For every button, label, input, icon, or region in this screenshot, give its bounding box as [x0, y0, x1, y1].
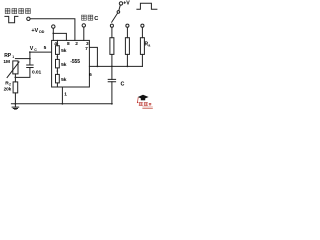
node: R2/rail junction — [15, 103, 17, 105]
svg-text:5k: 5k — [61, 48, 67, 54]
watermark red text — [139, 102, 152, 106]
wire: VC down to capacitor — [29, 52, 31, 65]
node: pot/R2 junction — [15, 77, 17, 79]
wire: capacitor bottom to divider node — [15, 68, 30, 78]
resistor R2 — [13, 82, 18, 93]
svg-text:20k: 20k — [4, 87, 12, 92]
wire: +VDD down to pin 4 — [52, 28, 54, 40]
wire: pin 7 to timing node — [89, 47, 97, 66]
node: VC junction — [29, 51, 31, 53]
node: pin7/pin6 junction — [97, 66, 99, 68]
switch contact 2 — [126, 24, 129, 27]
negative trigger pulse waveform — [5, 16, 18, 22]
wire: pin 1 to ground rail — [61, 87, 63, 104]
switch SA: +V terminal — [119, 2, 122, 5]
svg-text:2: 2 — [75, 41, 78, 47]
svg-text:a: a — [148, 44, 150, 48]
wire: internal chain top — [56, 40, 58, 45]
node: divider tap 2 — [57, 70, 59, 72]
svg-text:-555: -555 — [70, 59, 80, 65]
svg-text:1: 1 — [64, 91, 67, 97]
input terminal (open circle) — [27, 17, 30, 20]
resistor internal 5k (3) — [56, 74, 60, 83]
positive pulse waveform — [137, 3, 157, 9]
wire — [56, 54, 58, 59]
resistor Ra2 — [126, 27, 128, 37]
node: C/rail junction — [111, 103, 113, 105]
node: divider tap 1 — [57, 56, 59, 58]
wire: pot top to VC line — [15, 58, 30, 60]
svg-text:C: C — [121, 82, 125, 88]
wire: trigger input to pin 2 — [30, 19, 75, 41]
node: VDD junction — [52, 33, 54, 35]
svg-text:1M: 1M — [3, 59, 10, 65]
node: pot top tee — [29, 58, 31, 60]
svg-text:4: 4 — [54, 41, 57, 47]
node: rail/C junction — [111, 66, 113, 68]
node: divider top tap — [57, 43, 59, 45]
wire: R2 to ground rail — [14, 93, 16, 104]
potentiometer RP1 — [13, 61, 18, 74]
svg-text:8: 8 — [67, 41, 70, 47]
pot arrow — [7, 62, 19, 78]
wire: VDD branch to pin 8 — [53, 33, 66, 40]
svg-text:+V: +V — [123, 1, 130, 7]
svg-text:3: 3 — [86, 41, 89, 47]
trigger pulse label 触发脉冲 (drawn glyph blocks) — [5, 9, 30, 14]
svg-text:5: 5 — [44, 45, 47, 51]
svg-text:C: C — [34, 48, 37, 52]
resistor internal 5k (1) — [56, 46, 60, 55]
svg-text:V: V — [30, 46, 34, 52]
wire: pin 6 rail to resistors — [89, 65, 142, 67]
watermark logo (cap) — [137, 95, 149, 103]
svg-text:1: 1 — [12, 55, 14, 59]
capacitor C — [111, 66, 113, 79]
node: pin1/rail junction — [62, 103, 64, 105]
resistor Ra1 — [111, 27, 113, 37]
wire — [56, 83, 58, 87]
switch arm — [112, 13, 118, 22]
svg-text:+V: +V — [31, 28, 38, 34]
svg-text:6: 6 — [89, 72, 92, 78]
svg-text:C: C — [94, 16, 98, 22]
wire: pot to R2 — [14, 74, 16, 82]
svg-text:RP: RP — [4, 53, 12, 59]
node: rail/R2 junction — [127, 66, 129, 68]
wire: output terminal to pin 3 — [83, 27, 85, 40]
ground — [12, 104, 19, 110]
resistor Ra3 — [141, 27, 143, 37]
wire: bottom ground rail — [11, 103, 112, 105]
switch contact 3 — [141, 24, 144, 27]
svg-text:7: 7 — [85, 46, 88, 52]
output terminal circle (输出C) — [82, 24, 85, 27]
resistor internal 5k (2) — [56, 59, 60, 68]
svg-text:0.01: 0.01 — [32, 69, 41, 75]
switch contact 1 — [110, 24, 113, 27]
capacitor 0.01 — [27, 65, 33, 68]
wire — [56, 68, 58, 75]
switch pivot — [119, 5, 120, 10]
op 555 IC box U1 — [52, 40, 90, 87]
svg-text:5k: 5k — [61, 77, 67, 83]
wire: pin 5 control voltage VC — [30, 51, 52, 53]
svg-text:5k: 5k — [61, 62, 67, 68]
label 输出C — [82, 15, 93, 20]
svg-text:DD: DD — [39, 30, 44, 34]
+VDD terminal circle — [52, 25, 55, 28]
